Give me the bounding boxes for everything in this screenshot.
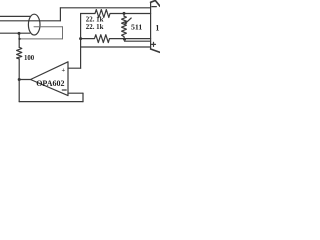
svg-text:+: + [62,67,66,74]
svg-text:OPA602: OPA602 [36,79,64,88]
svg-text:100: 100 [24,55,35,62]
svg-text:22. 1k: 22. 1k [86,24,104,31]
svg-text:511: 511 [131,23,142,32]
svg-text:22. 1k: 22. 1k [86,17,104,24]
svg-text:1: 1 [155,23,159,32]
